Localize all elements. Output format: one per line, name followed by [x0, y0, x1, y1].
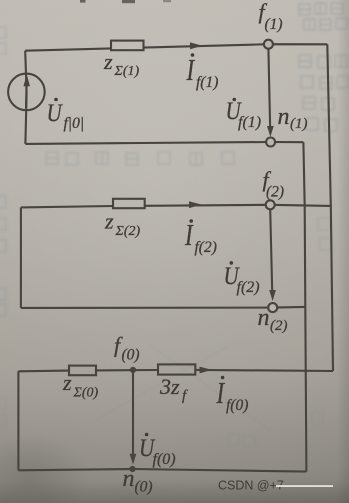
cropped formula fragments at top edge: [80, 0, 171, 3]
label f(1): [259, 0, 283, 33]
resistor 3z_f: [158, 364, 195, 374]
wire: loop2 left edge: [20, 207, 22, 308]
resistor z_sigma1: [111, 41, 144, 51]
label 3z_f: [159, 374, 188, 404]
wire: fault branch f1 to n1 with voltage arrow: [268, 48, 270, 130]
label I_f(0): [216, 376, 249, 414]
label I_f(1): [186, 53, 219, 91]
label I_f(2): [184, 218, 217, 256]
source U_f|0|: [8, 74, 45, 111]
current arrow I_f(0): [200, 367, 213, 374]
node f(2) open terminal: [266, 200, 275, 209]
watermark CSDN: [218, 479, 333, 493]
label z_sigma2: [104, 209, 140, 240]
label n(0): [123, 466, 153, 496]
label f(2): [263, 167, 285, 201]
wire: rail B (n1 down to zero-seq bottom corner): [303, 142, 306, 471]
wire: rail A (f1 down right side to zero-seq top wire): [327, 44, 333, 371]
source arrow: [25, 83, 28, 108]
wire: fault branch f2 to n2 with voltage arrow: [270, 209, 272, 295]
label U_f(2): [224, 261, 260, 296]
wire: loop1 top wire (source top to resistor): [25, 48, 111, 50]
label z_sigma1: [103, 49, 139, 79]
wire: loop3 top wire segments: [18, 370, 69, 373]
current arrow I_f(1): [190, 42, 203, 49]
label U_f|0|: [47, 98, 85, 132]
current arrow I_f(2): [189, 201, 202, 208]
wire: loop1 bottom wire through n1 to rail B corner: [25, 142, 303, 144]
label U_f(1): [226, 96, 262, 131]
wire: loop2 top wire (resistor to f2 to rail A): [145, 205, 331, 206]
wire: loop2 top wire (left corner to resistor): [21, 206, 113, 207]
wire: fault branch f0 to n0 with voltage arrow: [132, 370, 134, 458]
label f(0): [114, 333, 140, 364]
wire: loop3 left edge: [17, 371, 19, 470]
label z_sigma0: [62, 370, 98, 401]
wire: loop1 left edge through source: [25, 51, 26, 144]
resistor z_sigma2: [113, 199, 145, 208]
resistor z_sigma0: [69, 366, 96, 376]
faint crease lines: [95, 345, 270, 430]
wire: loop2 bottom wire through n2 to rail B: [21, 307, 305, 308]
label n(2): [258, 305, 288, 334]
wire: loop1 top wire (resistor to node f1 to rail A corner): [144, 44, 328, 47]
node n(2) open terminal: [268, 303, 277, 312]
wire: loop3 bottom wire through n0: [18, 469, 306, 472]
node f(0) junction dot: [130, 367, 136, 373]
node n(1) open terminal: [266, 138, 275, 147]
label U_f(0): [139, 433, 176, 468]
label n(1): [278, 104, 308, 132]
node f(1) open terminal: [264, 40, 273, 49]
node n(0) junction dot: [129, 466, 135, 472]
